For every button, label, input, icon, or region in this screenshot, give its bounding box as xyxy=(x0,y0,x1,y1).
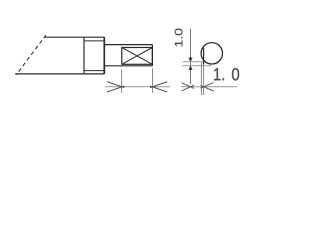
sleeve inner top line xyxy=(84,40,105,42)
width right arrowhead xyxy=(201,83,214,91)
box width dimension line xyxy=(105,86,170,88)
vertical dim line xyxy=(190,29,192,84)
box width right arrowhead xyxy=(150,82,167,92)
upper tick line xyxy=(183,61,205,63)
box width left arrowhead xyxy=(107,82,124,92)
extension line circle left xyxy=(200,63,202,96)
heater box X diagonal 1 xyxy=(122,48,153,65)
dashed bevel line xyxy=(16,35,46,75)
heater box X diagonal 2 xyxy=(122,48,153,65)
up arrowhead xyxy=(189,66,193,70)
label 1.0 vertical xyxy=(175,29,183,47)
width dimension line xyxy=(181,86,237,88)
label 1. 0 xyxy=(214,68,239,80)
heater box xyxy=(122,48,153,65)
extension line right of box width dim xyxy=(152,69,154,93)
sleeve left edge xyxy=(83,37,85,74)
flat edge chord xyxy=(203,48,205,65)
width left arrowhead xyxy=(182,83,195,91)
blade top edge xyxy=(45,36,105,38)
down arrowhead xyxy=(189,58,193,62)
extension line left of box width dim xyxy=(121,70,123,93)
neck right edge xyxy=(151,45,153,66)
sleeve inner bottom line xyxy=(84,70,105,72)
sleeve right edge xyxy=(103,37,105,74)
neck bottom edge xyxy=(105,65,153,67)
end view circle xyxy=(201,43,222,64)
extension line chord xyxy=(203,64,205,95)
blade bottom edge xyxy=(15,73,104,75)
neck top edge xyxy=(105,44,153,46)
lower tick line xyxy=(183,65,212,67)
soldering tip dimension drawing xyxy=(0,0,250,110)
